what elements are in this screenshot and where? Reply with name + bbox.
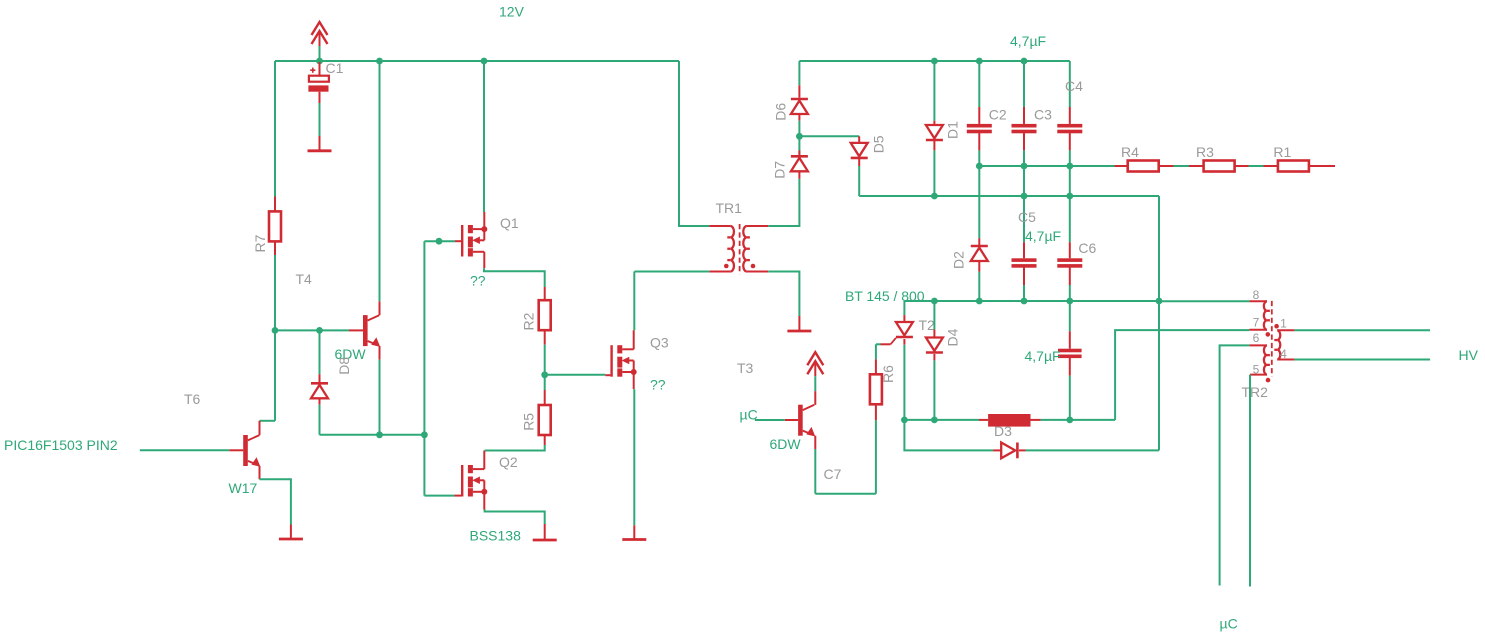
- diode D4: [933, 301, 935, 330]
- svg-text:R7: R7: [252, 234, 268, 252]
- node T2 cathode row: [901, 417, 908, 424]
- svg-text:D4: D4: [944, 328, 960, 346]
- mosfet Q1: [455, 240, 461, 242]
- wire Q1 gate column: [423, 241, 425, 495]
- node 12V junction Q1 branch: [481, 58, 488, 65]
- wire D6 to node: [798, 121, 800, 137]
- wire snubber row: [904, 419, 979, 421]
- node C4 row166: [1066, 163, 1073, 170]
- node rail C3: [1021, 58, 1028, 65]
- wire TR1 secondary bottom to ground: [768, 272, 799, 317]
- svg-text:R2: R2: [520, 312, 536, 330]
- node row301 TR2 branch: [1156, 298, 1163, 305]
- resistor R4: [1115, 165, 1128, 167]
- wire 12V rail drop to R7: [274, 61, 276, 197]
- transistor T3: [785, 419, 798, 421]
- wire TR1 bottom-left to Q3: [634, 271, 709, 273]
- wire C1 to ground: [319, 103, 321, 136]
- wire gate bottom row: [320, 434, 425, 436]
- wire C4 to row166: [1069, 150, 1071, 166]
- node R2 R5 Q3 gate: [541, 371, 548, 378]
- wire D3 to node: [1041, 419, 1070, 421]
- wire node down to R5: [544, 375, 546, 390]
- svg-text:4,7µF: 4,7µF: [1010, 33, 1046, 49]
- diode D5: [858, 136, 860, 143]
- wire C7 bottom run: [815, 493, 876, 495]
- wire C2 to row166: [978, 150, 980, 166]
- wire R4 to R3: [1174, 165, 1190, 167]
- capacitor C1 polarized: [319, 62, 321, 77]
- transistor T4: [349, 329, 363, 331]
- node D8 top junction: [316, 327, 323, 334]
- supply arrow above T3: [807, 352, 823, 365]
- svg-text:4,7µF: 4,7µF: [1025, 348, 1061, 364]
- svg-text:PIC16F1503 PIN2: PIC16F1503 PIN2: [4, 437, 118, 453]
- ground under Q3: [633, 525, 635, 539]
- svg-text:C1: C1: [326, 60, 344, 76]
- svg-text:D8: D8: [336, 357, 352, 375]
- wire node down to D8: [319, 330, 321, 374]
- wire gate to Q1: [424, 240, 455, 242]
- wire T6 emitter to ground: [260, 479, 291, 524]
- mosfet Q3: [605, 374, 610, 376]
- svg-text:D6: D6: [773, 103, 789, 121]
- capacitor C6: [1069, 242, 1071, 258]
- mosfet Q2: [455, 495, 462, 497]
- diode D8: [319, 374, 321, 385]
- capacitor C2: [978, 61, 980, 107]
- svg-text:12V: 12V: [499, 4, 525, 20]
- wire TR2 pin1 out: [1294, 329, 1430, 331]
- wire row196 corner down: [1158, 196, 1160, 301]
- wire D8 to bottom row: [319, 405, 321, 435]
- svg-text:Q3: Q3: [650, 335, 669, 351]
- node 12V junction at supply: [316, 58, 323, 65]
- svg-text:D3: D3: [994, 423, 1012, 439]
- svg-text:C7: C7: [824, 466, 842, 482]
- svg-text:??: ??: [470, 273, 486, 289]
- svg-text:W17: W17: [229, 480, 258, 496]
- node C2 row166: [976, 163, 983, 170]
- wire gate column to Q2 gate: [424, 495, 454, 497]
- svg-text:Q2: Q2: [499, 454, 518, 470]
- diode D7: [798, 136, 800, 155]
- capacitor 4,7uF output: [1069, 301, 1071, 331]
- thyristor T2: [903, 301, 905, 315]
- wire TR2 pin4 out: [1294, 359, 1430, 361]
- wire riser to TR2 pin7: [1115, 330, 1249, 420]
- wire T6 collector jog: [260, 420, 276, 422]
- wire rail drop to D6: [798, 61, 800, 85]
- wire TR2 pin5 down: [1249, 375, 1251, 587]
- transistor T6: [229, 449, 243, 451]
- wire Q3 source to ground: [633, 389, 635, 525]
- svg-text:6: 6: [1253, 331, 1260, 345]
- node D4 top: [931, 298, 938, 305]
- svg-text:HV: HV: [1459, 347, 1479, 363]
- node D1 bottom: [931, 193, 938, 200]
- phase dot TR2 winding87: [1266, 332, 1271, 337]
- svg-text:C5: C5: [1018, 209, 1036, 225]
- node C4 row196: [1066, 193, 1073, 200]
- wire row166 to R4: [979, 165, 1114, 167]
- phase dot TR2 winding65: [1266, 378, 1271, 383]
- wire up to T3 emitter: [814, 449, 816, 494]
- wire node to Q3 gate: [545, 374, 606, 376]
- svg-text:R6: R6: [880, 365, 896, 383]
- wire D5 down: [858, 166, 860, 196]
- phase dot TR1 primary: [724, 264, 729, 269]
- wire R3 to R1: [1249, 165, 1264, 167]
- svg-text:D2: D2: [951, 251, 967, 269]
- wire T2 gate to R6: [876, 343, 881, 345]
- diode D1: [933, 61, 935, 121]
- svg-text:BT 145 / 800: BT 145 / 800: [845, 288, 925, 304]
- svg-text:7: 7: [1253, 316, 1260, 330]
- wire HV top rail: [799, 60, 1069, 62]
- svg-text:C3: C3: [1034, 107, 1052, 123]
- svg-text:D7: D7: [771, 161, 787, 179]
- svg-text:T4: T4: [296, 271, 313, 287]
- node D6 D7 D5: [796, 133, 803, 140]
- node 12V junction T4 branch: [376, 58, 383, 65]
- resistor R3: [1189, 165, 1204, 167]
- wire secondary row: [859, 195, 1159, 197]
- node rail C2: [976, 58, 983, 65]
- node C5 bottom: [1021, 298, 1028, 305]
- wire TR1 secondary top up: [768, 179, 799, 226]
- svg-text:8: 8: [1253, 288, 1260, 302]
- node C3 row166: [1021, 163, 1028, 170]
- svg-text:R4: R4: [1121, 144, 1139, 160]
- wire input to T6 base: [140, 449, 229, 451]
- resistor R2: [544, 287, 546, 300]
- wire Q1 source to R2: [484, 268, 545, 287]
- resistor R7: [274, 197, 276, 212]
- wire row301 to TR2 pin8: [1159, 300, 1249, 302]
- svg-text:??: ??: [650, 377, 666, 393]
- wire return row: [904, 420, 993, 451]
- wire 12V top rail: [275, 60, 679, 62]
- svg-text:T2: T2: [919, 317, 936, 333]
- wire row301 BT145: [904, 300, 1159, 302]
- wire node to D5: [799, 135, 859, 137]
- wire C3 column to C5: [1023, 166, 1025, 242]
- svg-text:T6: T6: [184, 391, 201, 407]
- resistor R5: [544, 390, 546, 405]
- wire 12V to Q1 drain: [483, 61, 485, 212]
- svg-text:µC: µC: [1220, 616, 1238, 632]
- wire D4 down: [933, 360, 935, 420]
- node D4 bottom: [931, 417, 938, 424]
- svg-text:R1: R1: [1273, 144, 1291, 160]
- wire 12V to T4 collector: [379, 61, 381, 301]
- ground under C1: [319, 136, 321, 151]
- diode D6: [798, 85, 800, 97]
- wire base row to T4: [275, 329, 349, 331]
- node row meets gate column: [421, 431, 428, 438]
- svg-text:Q1: Q1: [500, 215, 519, 231]
- svg-text:R5: R5: [521, 413, 537, 431]
- supply 12V arrow: [312, 22, 328, 35]
- wire T4 emitter down: [379, 360, 381, 435]
- wire R2 to node: [544, 345, 546, 375]
- resistor R6: [875, 359, 877, 374]
- wire C2 bottom to D2: [978, 166, 980, 238]
- wire supply to T3 collector: [814, 376, 816, 391]
- ground under Q2: [544, 524, 546, 540]
- svg-text:T3: T3: [737, 360, 754, 376]
- svg-text:4: 4: [1280, 347, 1287, 361]
- node base row left: [272, 327, 279, 334]
- svg-text:C4: C4: [1065, 78, 1083, 94]
- diode D2: [978, 238, 980, 247]
- capacitor C5: [1023, 242, 1025, 258]
- node cap3 bottom: [1066, 417, 1073, 424]
- wire R7 to base node: [274, 255, 276, 330]
- svg-text:C2: C2: [989, 107, 1007, 123]
- wire uC to T3 base: [755, 419, 785, 421]
- node D2 bottom: [976, 298, 983, 305]
- svg-text:5: 5: [1253, 363, 1260, 377]
- node Q1 gate junction: [436, 238, 443, 245]
- wire C3 to row166: [1023, 150, 1025, 166]
- wire Q3 drain to TR1: [633, 272, 635, 331]
- diode D3: [979, 419, 988, 421]
- svg-text:4,7µF: 4,7µF: [1025, 228, 1061, 244]
- svg-text:TR1: TR1: [716, 200, 743, 216]
- phase dot TR1 secondary: [751, 264, 756, 269]
- wire return to riser: [1026, 449, 1160, 451]
- node C6 bottom: [1066, 298, 1073, 305]
- diode output return: [993, 449, 1001, 451]
- wire C4 column to C6: [1069, 166, 1071, 242]
- capacitor C4: [1069, 61, 1071, 107]
- wire down to output diode row: [1158, 301, 1160, 450]
- svg-text:R3: R3: [1196, 144, 1214, 160]
- wire R5 to Q2 drain: [485, 445, 545, 451]
- ground under TR1: [798, 316, 800, 331]
- node C3 row196: [1021, 193, 1028, 200]
- svg-text:C6: C6: [1078, 240, 1096, 256]
- ground under T6: [290, 525, 292, 540]
- wire Q2 source to ground: [485, 510, 545, 525]
- svg-text:1: 1: [1280, 317, 1287, 331]
- wire TR2 pin6 down: [1220, 345, 1250, 585]
- wire T2 cathode down: [903, 345, 905, 420]
- node rail D1: [931, 58, 938, 65]
- svg-text:TR2: TR2: [1242, 384, 1269, 400]
- wire node to pin7 riser: [1070, 419, 1115, 421]
- svg-text:6DW: 6DW: [770, 436, 802, 452]
- resistor R1: [1264, 165, 1278, 167]
- transformer TR1: [709, 225, 730, 227]
- wire 12V rail to TR1 primary: [679, 61, 709, 226]
- svg-text:D1: D1: [945, 121, 961, 139]
- capacitor C3: [1023, 61, 1025, 107]
- svg-text:BSS138: BSS138: [470, 528, 522, 544]
- node T4 emitter joins row: [376, 431, 383, 438]
- wire collector column: [274, 330, 276, 420]
- wire R6 down to C7 route: [875, 420, 877, 493]
- transformer TR2: [1249, 300, 1267, 302]
- svg-text:D5: D5: [870, 135, 886, 153]
- phase dot TR2 winding14: [1274, 324, 1279, 329]
